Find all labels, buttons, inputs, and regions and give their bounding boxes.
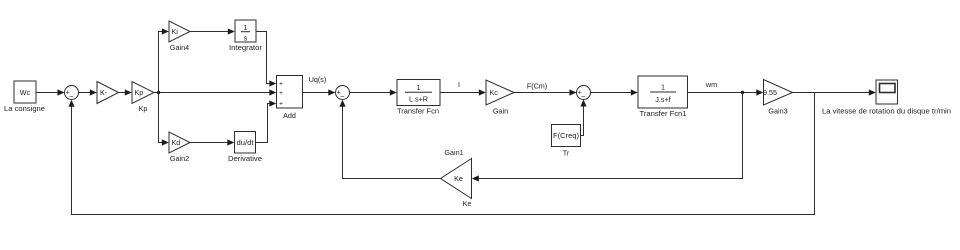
svg-text:Transfer Fcn1: Transfer Fcn1 (640, 109, 687, 118)
Scope block (822, 80, 951, 116)
svg-text:+: + (279, 101, 283, 108)
F(Creq) block Tr (552, 125, 581, 158)
gain Gain4 (Ki) (169, 21, 190, 52)
svg-text:Ki: Ki (172, 27, 179, 36)
wire Transfer Fcn1 to Gain3, signal wm (688, 80, 764, 96)
svg-text:F(Creq): F(Creq) (553, 131, 579, 140)
wire Wc to Sum1 (36, 89, 65, 95)
gain Kp (132, 82, 154, 114)
gain Kc (486, 80, 514, 116)
svg-text:Tr: Tr (563, 149, 570, 158)
svg-text:Integrator: Integrator (229, 43, 263, 52)
gain Gain3 (9.55) (763, 80, 793, 116)
summing junction Sum2 (336, 86, 350, 101)
wire Gain3 to Scope (793, 89, 876, 95)
svg-text:1: 1 (417, 83, 421, 92)
svg-text:Kc: Kc (490, 88, 499, 97)
junction node after Kp (157, 91, 160, 94)
wire Gain2 to Derivative (190, 139, 234, 145)
svg-text:Kp: Kp (135, 88, 144, 97)
wire Add to Sum2, signal Uq(s) (303, 75, 336, 96)
wire Kc to Sum3, signal F(Cm) (514, 82, 577, 96)
svg-text:−: − (340, 92, 345, 101)
svg-text:Gain1: Gain1 (444, 148, 463, 157)
svg-text:Wc: Wc (20, 88, 31, 97)
wire gain Ke to Sum2 (339, 100, 440, 179)
wire F(Creq) to Sum3 (580, 100, 586, 136)
wire feedback wm to gain Ke (472, 93, 743, 182)
Transfer Fcn1 block 1/(J.s+f) (638, 76, 688, 118)
gain Gain1 (Ke, flipped) (441, 148, 472, 208)
wire branch down to gain Kd (159, 93, 169, 146)
svg-text:−: − (69, 92, 74, 101)
Transfer Fcn block 1/(L.s+R) (397, 80, 440, 116)
junction node wm (741, 91, 744, 94)
svg-text:−: − (581, 92, 586, 101)
svg-text:Add: Add (283, 111, 296, 120)
svg-text:K-: K- (100, 88, 108, 97)
wire Transfer Fcn to gain Kc, signal I (440, 80, 486, 96)
svg-text:F(Cm): F(Cm) (527, 82, 547, 91)
svg-text:9.55: 9.55 (763, 88, 777, 97)
svg-text:L.s+R: L.s+R (409, 95, 428, 104)
svg-text:Gain3: Gain3 (768, 107, 787, 116)
wire Sum3 to Transfer Fcn1 (591, 89, 638, 95)
svg-text:+: + (279, 81, 283, 88)
gain K- (97, 82, 119, 104)
svg-text:wm: wm (705, 80, 717, 89)
svg-text:1: 1 (661, 83, 665, 92)
summing junction Sum3 (577, 86, 591, 101)
wire branch up to gain Ki (159, 28, 169, 92)
svg-text:du/dt: du/dt (237, 138, 254, 147)
wire Derivative to Add input 3 (256, 100, 277, 142)
Derivative block du/dt (228, 132, 262, 164)
svg-text:Ke: Ke (454, 174, 463, 183)
svg-text:Ke: Ke (463, 199, 472, 208)
wire outer feedback to Sum1 (68, 93, 814, 215)
svg-text:s: s (244, 34, 248, 43)
svg-text:Kp: Kp (139, 104, 148, 113)
wire Sum2 to Transfer Fcn (350, 89, 397, 95)
svg-text:La consigne: La consigne (4, 104, 45, 113)
svg-text:Uq(s): Uq(s) (309, 75, 327, 84)
svg-text:Gain2: Gain2 (170, 154, 189, 163)
Add block (277, 76, 303, 121)
svg-text:Transfer Fcn: Transfer Fcn (397, 107, 439, 116)
svg-text:1: 1 (244, 23, 248, 32)
wire Integrator to Add input 1 (256, 32, 276, 87)
wire gain Kp to Add input 2 (154, 89, 276, 95)
svg-text:Gain4: Gain4 (170, 43, 189, 52)
svg-text:Derivative: Derivative (228, 154, 262, 163)
svg-text:+: + (279, 90, 283, 97)
wire gain K- to gain Kp (119, 89, 132, 95)
svg-text:I: I (458, 80, 460, 89)
summing junction Sum1 (65, 86, 79, 101)
svg-text:Kd: Kd (172, 138, 181, 147)
wire Sum1 to gain K- (79, 89, 97, 95)
svg-text:La vitesse de rotation du disq: La vitesse de rotation du disque tr/min (822, 107, 951, 116)
svg-text:J.s+f: J.s+f (655, 95, 670, 104)
source block Wc (4, 81, 45, 113)
gain Gain2 (Kd) (169, 132, 190, 163)
wire Gain4 to Integrator (190, 28, 235, 34)
Integrator block 1/s (229, 20, 263, 52)
svg-text:Gain: Gain (493, 107, 508, 116)
